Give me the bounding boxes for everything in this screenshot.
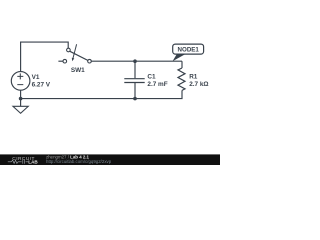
svg-text:2.7 mF: 2.7 mF <box>147 81 167 88</box>
watermark logo LAB <box>8 160 28 164</box>
svg-text:V1: V1 <box>32 74 40 81</box>
resistor R1 <box>178 68 209 90</box>
wire bottom rail <box>20 90 22 106</box>
svg-text:R1: R1 <box>189 73 198 80</box>
svg-text:C1: C1 <box>147 73 156 80</box>
watermark bar <box>0 154 220 165</box>
node junction dot mid <box>133 59 137 63</box>
node NODE1 flag <box>173 44 204 61</box>
node junction dot bottom left <box>19 97 23 101</box>
wire R1 top stub <box>181 61 183 68</box>
capacitor C1 <box>124 73 167 87</box>
svg-text:http://circuitlab.com/c/gq9g2/: http://circuitlab.com/c/gq9g2/2xvp <box>46 159 112 164</box>
svg-text:LAB: LAB <box>28 160 38 165</box>
svg-text:6.27 V: 6.27 V <box>32 82 51 89</box>
svg-text:SW1: SW1 <box>71 67 85 74</box>
voltage source V1 <box>11 72 51 91</box>
wire C1 top stub <box>134 61 136 78</box>
node junction dot bottom mid <box>133 97 137 101</box>
svg-text:2.7 kΩ: 2.7 kΩ <box>189 81 208 88</box>
wire bottom horizontal <box>21 90 182 98</box>
ground <box>13 106 28 113</box>
wire mid rail <box>91 60 182 62</box>
switch SW1 <box>58 44 91 74</box>
wire top rail <box>21 42 69 72</box>
svg-text:NODE1: NODE1 <box>178 46 200 53</box>
wire C1 bottom stub <box>134 83 136 99</box>
